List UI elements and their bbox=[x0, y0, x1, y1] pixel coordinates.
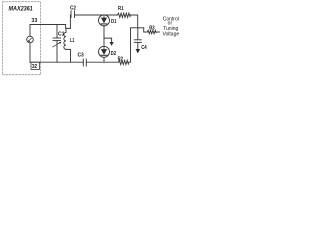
inductor L1 bbox=[64, 28, 75, 62]
wire current source top bbox=[29, 25, 31, 37]
wire varactor midpoint bbox=[103, 26, 105, 46]
svg-text:C3: C3 bbox=[78, 53, 84, 59]
svg-text:C2: C2 bbox=[70, 5, 76, 11]
resistor R2 bbox=[118, 57, 129, 65]
svg-text:R1: R1 bbox=[118, 6, 124, 12]
node label Control or Tuning Voltage bbox=[162, 17, 179, 38]
resistor R3 bbox=[147, 26, 159, 34]
wire top rail to R1 bbox=[75, 14, 118, 16]
ground arrow at varactor midpoint bbox=[104, 38, 114, 46]
svg-text:D2: D2 bbox=[111, 51, 117, 57]
capacitor C1 (variable) bbox=[53, 25, 65, 63]
wire pin33 horizontal bbox=[30, 24, 66, 26]
varactor diode D1 bbox=[99, 15, 117, 26]
current source I1 bbox=[27, 36, 34, 43]
capacitor C2 bbox=[70, 5, 76, 17]
pin 32 box bbox=[31, 62, 40, 70]
svg-text:MAX2361: MAX2361 bbox=[9, 5, 34, 12]
wire bottom rail left bbox=[30, 61, 83, 63]
svg-text:Voltage: Voltage bbox=[162, 31, 179, 37]
svg-text:33: 33 bbox=[31, 18, 37, 24]
wire bias bus bbox=[131, 27, 144, 29]
wire bottom rail middle bbox=[86, 61, 118, 63]
svg-text:C4: C4 bbox=[141, 45, 147, 51]
svg-text:L1: L1 bbox=[70, 38, 74, 44]
wire C2 branch up bbox=[69, 15, 72, 28]
svg-text:32: 32 bbox=[32, 64, 38, 70]
capacitor C3 bbox=[78, 53, 87, 66]
wire R2 to bias riser bbox=[129, 28, 131, 62]
svg-text:D1: D1 bbox=[111, 19, 117, 25]
wire jog pin33 to tank columns bbox=[66, 25, 71, 29]
wire bias step down to R3 bbox=[144, 28, 148, 32]
wire current source bottom bbox=[29, 43, 31, 62]
capacitor C4 with ground arrow bbox=[134, 28, 146, 54]
resistor R1 bbox=[118, 6, 138, 28]
varactor diode D2 bbox=[99, 46, 117, 62]
IC boundary dashed box MAX2361 bbox=[3, 2, 41, 75]
